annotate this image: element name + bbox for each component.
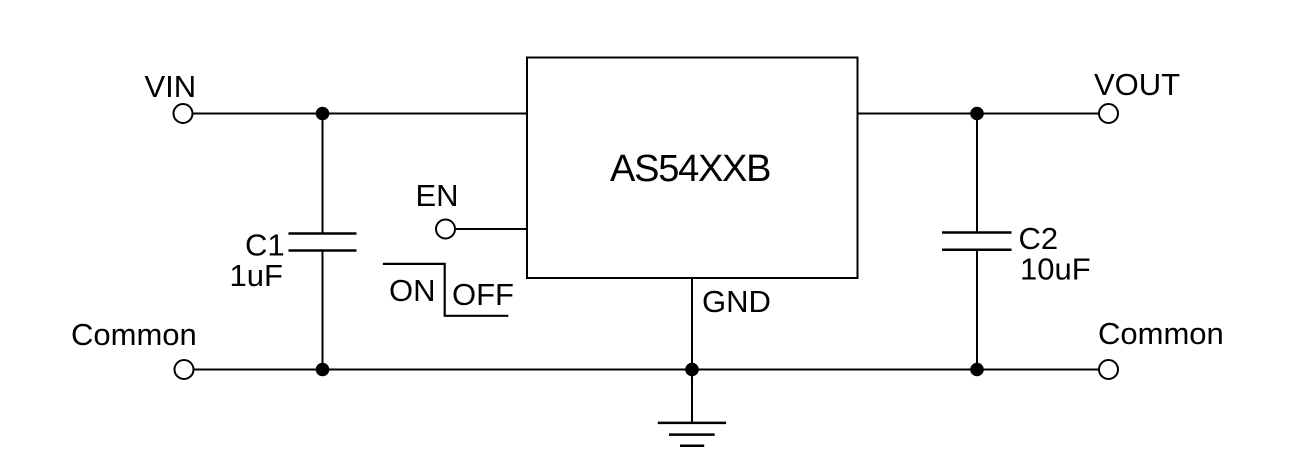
wire U1 GND lead [691,278,693,370]
wire C1 top lead [322,114,324,234]
terminal VIN [174,104,193,123]
wire bottom rail [194,369,1100,371]
svg-text:Common: Common [1098,316,1224,351]
svg-text:ON: ON [389,273,436,308]
junction node C2/common [970,363,984,377]
wire C2 top lead [976,114,978,233]
wire C2 bottom lead [976,250,978,370]
capacitor C1 [289,234,357,251]
wire EN to U1 [455,228,527,230]
junction node VOUT/C2 [970,107,984,121]
svg-text:VOUT: VOUT [1094,67,1180,102]
wire ground stem [691,370,693,423]
terminal VOUT [1099,104,1118,123]
svg-text:AS54XXB: AS54XXB [610,148,772,190]
svg-text:EN: EN [416,178,459,213]
terminal EN [436,220,455,239]
svg-text:10uF: 10uF [1020,252,1091,287]
svg-text:Common: Common [71,317,197,352]
svg-text:VIN: VIN [145,69,197,104]
wire U1 to VOUT [858,113,1100,115]
junction node VIN/C1 [316,107,330,121]
terminal Common left [175,360,194,379]
IC U1 box [527,58,858,279]
svg-text:GND: GND [702,284,771,319]
junction node C1/common [316,363,330,377]
svg-text:1uF: 1uF [230,258,283,293]
wire C1 bottom lead [322,251,324,370]
ground [658,423,726,446]
ON/OFF waveform symbol [383,264,508,316]
wire VIN to U1 [193,113,528,115]
terminal Common right [1099,360,1118,379]
capacitor C2 [942,233,1012,250]
junction node GND/common [685,363,699,377]
svg-text:OFF: OFF [452,277,514,312]
